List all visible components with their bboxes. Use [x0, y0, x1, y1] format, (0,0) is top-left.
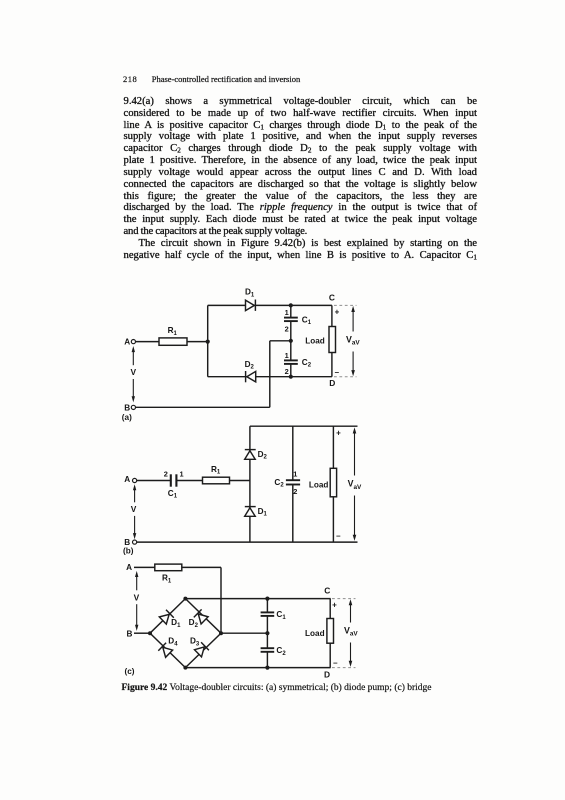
svg-text:Load: Load: [305, 336, 325, 345]
wire top rail c: [185, 598, 330, 600]
svg-text:VaV: VaV: [344, 625, 358, 637]
node C2 bottom c: [265, 666, 269, 670]
wire R1 to junction b: [230, 480, 250, 482]
svg-text:V: V: [134, 592, 140, 602]
svg-text:1: 1: [293, 470, 297, 479]
dashed tick top c: [332, 598, 356, 600]
body paragraph: [124, 96, 478, 261]
bridge edge left-bottom: [150, 633, 185, 667]
node bridge left corner: [148, 631, 152, 635]
arrow V input b: [133, 484, 136, 539]
node bridge bottom corner: [183, 666, 187, 670]
node midpoint c: [265, 631, 269, 635]
wire R1 to corner riser c: [182, 566, 221, 568]
running head: [123, 74, 483, 84]
terminal A b: [133, 478, 137, 482]
svg-text:D2: D2: [245, 360, 255, 371]
bridge edge bottom-right: [185, 633, 221, 667]
node midpoint: [289, 339, 293, 343]
svg-text:R1: R1: [211, 465, 221, 476]
bridge edge left-top: [150, 599, 185, 634]
svg-text:D1: D1: [258, 507, 268, 518]
wire bottom rail b: [137, 541, 358, 543]
wire bottom rail: [208, 376, 332, 378]
wire midpoint drop to B line: [269, 341, 271, 408]
svg-text:B: B: [124, 403, 130, 412]
resistor R1 b: [203, 477, 230, 484]
wire riser junction: [207, 305, 209, 376]
diode D2 b: [245, 450, 256, 460]
svg-text:D: D: [324, 670, 330, 680]
svg-text:(a): (a): [122, 413, 132, 422]
svg-text:C1: C1: [302, 315, 312, 326]
wire B to bridge left corner: [134, 632, 150, 634]
wire A to C1 b: [137, 480, 171, 482]
svg-text:(c): (c): [125, 667, 135, 676]
svg-text:C2: C2: [276, 646, 286, 657]
wire top rail b: [250, 425, 358, 427]
svg-text:D2: D2: [258, 450, 268, 461]
terminal B b: [133, 540, 137, 544]
svg-text:D3: D3: [190, 637, 200, 648]
svg-text:+: +: [335, 308, 340, 317]
arrow VaV b: [353, 427, 357, 541]
svg-text:A: A: [124, 475, 130, 484]
svg-text:A: A: [124, 337, 130, 346]
resistor R1: [159, 338, 187, 345]
svg-text:2: 2: [293, 487, 297, 496]
svg-text:–: –: [335, 368, 340, 377]
load resistor: [329, 327, 336, 353]
diode D3 c: [195, 642, 209, 657]
diode D1 b: [245, 507, 256, 517]
node C1 top c: [265, 597, 269, 601]
svg-text:A: A: [126, 563, 132, 572]
wire bottom rail c: [185, 667, 330, 669]
capacitor C1 b: [171, 474, 177, 486]
svg-text:C1: C1: [276, 610, 286, 621]
arrow VaV output: [351, 306, 355, 376]
svg-text:Load: Load: [309, 480, 329, 489]
svg-text:R1: R1: [168, 326, 178, 337]
svg-text:D1: D1: [171, 618, 181, 629]
svg-text:V: V: [131, 367, 137, 377]
dashed tick top: [334, 304, 357, 306]
arrow V input c: [135, 571, 138, 631]
capacitor C1: [284, 305, 298, 340]
wire C1 to R1 b: [176, 480, 202, 482]
wire midpoint left: [270, 340, 291, 342]
bridge edge top-right: [185, 599, 221, 634]
capacitor C2: [284, 341, 298, 377]
svg-text:C2: C2: [274, 478, 284, 489]
svg-text:1: 1: [285, 308, 289, 317]
dashed tick bottom: [334, 376, 357, 378]
load resistor c: [327, 619, 334, 644]
svg-text:–: –: [336, 531, 341, 540]
arrow VaV c: [349, 599, 353, 667]
load resistor b: [330, 468, 336, 497]
svg-text:–: –: [333, 659, 338, 668]
svg-text:VaV: VaV: [348, 479, 362, 491]
svg-text:C1: C1: [168, 489, 178, 500]
node C2 bottom: [289, 375, 293, 379]
junction node: [206, 340, 210, 344]
diode D1: [246, 300, 256, 311]
wire load riser top c: [329, 599, 331, 619]
wire A to R1 c: [134, 566, 155, 568]
diode D2: [246, 371, 256, 382]
capacitor C1 c: [261, 599, 275, 634]
svg-text:Load: Load: [305, 629, 325, 638]
wire load riser top b: [332, 426, 334, 468]
wire riser to bridge right corner: [220, 567, 222, 633]
diode D4 c: [158, 643, 172, 658]
svg-text:2: 2: [285, 324, 289, 333]
wire B line: [136, 406, 270, 408]
capacitor C2 c: [261, 633, 275, 667]
terminal A: [131, 340, 135, 344]
wire right corner to midpoint c: [221, 632, 267, 634]
svg-text:+: +: [336, 428, 341, 437]
svg-text:D2: D2: [189, 618, 199, 629]
wire A to R1: [136, 341, 159, 343]
wire top rail: [208, 304, 332, 306]
node bridge top corner: [183, 597, 187, 601]
figure caption: [122, 683, 522, 693]
svg-text:1: 1: [179, 470, 183, 479]
node bridge right corner: [219, 631, 223, 635]
svg-text:(b): (b): [123, 547, 134, 556]
svg-text:B: B: [126, 629, 132, 638]
terminal B: [131, 405, 135, 409]
svg-text:D: D: [329, 378, 335, 388]
svg-text:V: V: [131, 504, 137, 514]
wire output riser top: [331, 305, 333, 326]
node C1 top: [289, 303, 293, 307]
wire load riser bottom b: [332, 497, 334, 542]
svg-text:1: 1: [285, 351, 289, 360]
resistor R1 c: [155, 564, 182, 571]
diode D1 c: [159, 610, 174, 624]
svg-text:2: 2: [164, 470, 168, 479]
svg-text:C: C: [329, 293, 335, 303]
diode D2 c: [194, 609, 208, 624]
wire load riser bottom c: [329, 643, 331, 667]
svg-text:D1: D1: [245, 288, 255, 299]
svg-text:R1: R1: [162, 574, 172, 585]
wire output riser bottom: [331, 353, 333, 377]
dashed tick bottom c: [332, 667, 356, 669]
svg-text:+: +: [332, 601, 337, 610]
svg-text:C2: C2: [302, 358, 312, 369]
arrow V input: [132, 346, 135, 402]
wire R1 to junction: [187, 341, 208, 343]
capacitor C2 b: [286, 426, 300, 542]
svg-text:VaV: VaV: [346, 334, 360, 346]
svg-text:D4: D4: [168, 637, 178, 648]
svg-text:2: 2: [285, 367, 289, 376]
svg-text:C: C: [324, 585, 330, 595]
wire diode branch riser: [249, 426, 251, 542]
